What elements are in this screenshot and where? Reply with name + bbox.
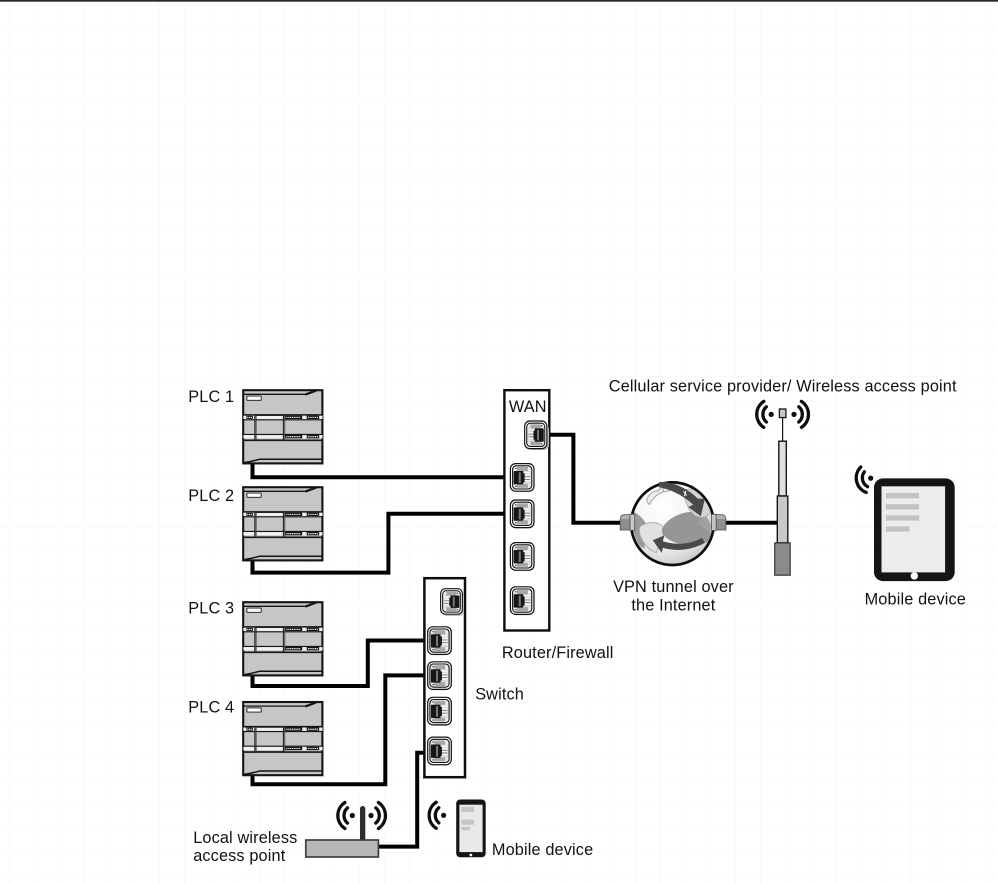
label PLC 2 — [188, 487, 234, 505]
label Switch — [475, 686, 524, 704]
svg-text:Mobile device: Mobile device — [865, 591, 966, 609]
wire router WAN to internet globe — [546, 435, 625, 523]
wire switch port5 to local access point — [379, 753, 431, 847]
label PLC 1 — [188, 388, 234, 406]
phone wifi waves — [429, 802, 446, 828]
router WAN port — [524, 421, 549, 450]
svg-text:access point: access point — [193, 847, 286, 865]
svg-text:Cellular service provider/ Wir: Cellular service provider/ Wireless acce… — [609, 378, 957, 396]
access point radio waves — [338, 803, 386, 829]
svg-text:WAN: WAN — [509, 398, 547, 416]
VPN tunnel connector left — [620, 514, 635, 530]
PLC 2 — [243, 487, 322, 560]
switch port 3 — [428, 662, 452, 691]
svg-text:the Internet: the Internet — [631, 597, 715, 615]
label Cellular service provider/ Wireless access point — [609, 378, 957, 396]
tablet wifi waves — [854, 465, 876, 494]
tablet mobile device — [874, 478, 955, 581]
local wireless access point — [306, 806, 379, 857]
PLC 1 — [243, 390, 322, 463]
switch port 4 — [428, 697, 452, 726]
PLC 4 — [243, 702, 322, 775]
internet globe — [631, 482, 714, 570]
phone mobile device — [456, 800, 486, 858]
label WAN — [509, 398, 547, 416]
router LAN port 3 — [510, 543, 534, 572]
top border line — [0, 0, 998, 2]
switch uplink port — [440, 589, 464, 616]
router LAN port 1 — [510, 464, 534, 493]
router/firewall box — [504, 390, 549, 630]
wire PLC1 to router LAN1 — [253, 462, 504, 477]
switch port 2 — [428, 627, 452, 656]
wire PLC4 to switch port3 — [253, 675, 425, 784]
svg-text:Local wireless: Local wireless — [193, 829, 297, 847]
router LAN port 2 — [510, 500, 534, 529]
wire PLC3 to switch port2 — [253, 641, 425, 687]
antenna radio waves — [757, 401, 809, 427]
wire internet globe to antenna mast — [719, 521, 778, 525]
label VPN tunnel over the Internet — [613, 578, 734, 615]
PLC 3 — [243, 602, 322, 675]
svg-text:PLC 2: PLC 2 — [188, 487, 234, 505]
svg-text:PLC 1: PLC 1 — [188, 388, 234, 406]
svg-text:PLC 4: PLC 4 — [188, 698, 234, 716]
label Router/Firewall — [502, 644, 614, 662]
svg-text:Router/Firewall: Router/Firewall — [502, 644, 614, 662]
svg-text:PLC 3: PLC 3 — [188, 600, 234, 618]
label Mobile device (phone) — [492, 841, 593, 859]
svg-text:Mobile device: Mobile device — [492, 841, 593, 859]
label PLC 4 — [188, 698, 234, 716]
label PLC 3 — [188, 600, 234, 618]
svg-text:VPN tunnel over: VPN tunnel over — [613, 578, 734, 596]
label Local wireless access point — [193, 829, 297, 865]
router LAN port 4 — [510, 587, 534, 616]
label Mobile device (tablet) — [865, 591, 966, 609]
switch port 5 — [428, 737, 452, 766]
wire PLC2 to router LAN2 — [253, 514, 504, 573]
svg-text:Switch: Switch — [475, 686, 524, 704]
VPN tunnel connector right — [711, 514, 726, 530]
cellular antenna mast — [775, 409, 791, 575]
switch box — [424, 578, 465, 777]
